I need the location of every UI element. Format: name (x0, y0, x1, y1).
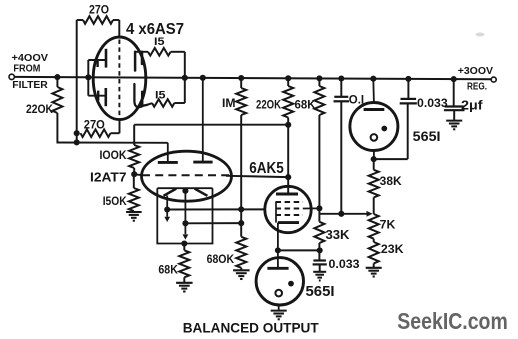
svg-text:BALANCED OUTPUT: BALANCED OUTPUT (183, 320, 319, 336)
svg-text:I2AT7: I2AT7 (90, 170, 127, 185)
svg-text:REG.: REG. (467, 82, 487, 93)
svg-text:565I: 565I (306, 283, 335, 300)
svg-text:7K: 7K (380, 219, 396, 231)
svg-text:68OK: 68OK (207, 254, 235, 266)
svg-text:0.033: 0.033 (417, 98, 448, 110)
svg-text:IM: IM (222, 98, 236, 110)
svg-text:I5: I5 (154, 36, 165, 48)
svg-text:IOOK: IOOK (100, 150, 128, 162)
svg-text:22OK: 22OK (256, 100, 282, 112)
svg-text:FILTER: FILTER (12, 79, 48, 91)
svg-text:SeekIC.com: SeekIC.com (397, 308, 508, 334)
svg-text:O.I: O.I (349, 94, 364, 106)
svg-text:68K: 68K (158, 263, 178, 277)
svg-text:0.033: 0.033 (329, 259, 360, 271)
svg-text:I5: I5 (155, 89, 166, 101)
svg-text:565I: 565I (413, 129, 441, 144)
svg-text:68K: 68K (295, 100, 317, 112)
svg-text:38K: 38K (380, 176, 403, 188)
svg-text:I5OK: I5OK (103, 196, 128, 208)
svg-text:33K: 33K (326, 228, 350, 242)
svg-text:FROM: FROM (13, 62, 40, 74)
svg-text:22OK: 22OK (26, 104, 54, 116)
svg-text:6AK5: 6AK5 (249, 160, 284, 177)
svg-text:27O: 27O (89, 2, 109, 16)
svg-text:27O: 27O (84, 118, 105, 132)
svg-text:+3OOV: +3OOV (458, 65, 493, 77)
svg-text:2μf: 2μf (461, 99, 483, 113)
svg-text:23K: 23K (381, 244, 404, 256)
